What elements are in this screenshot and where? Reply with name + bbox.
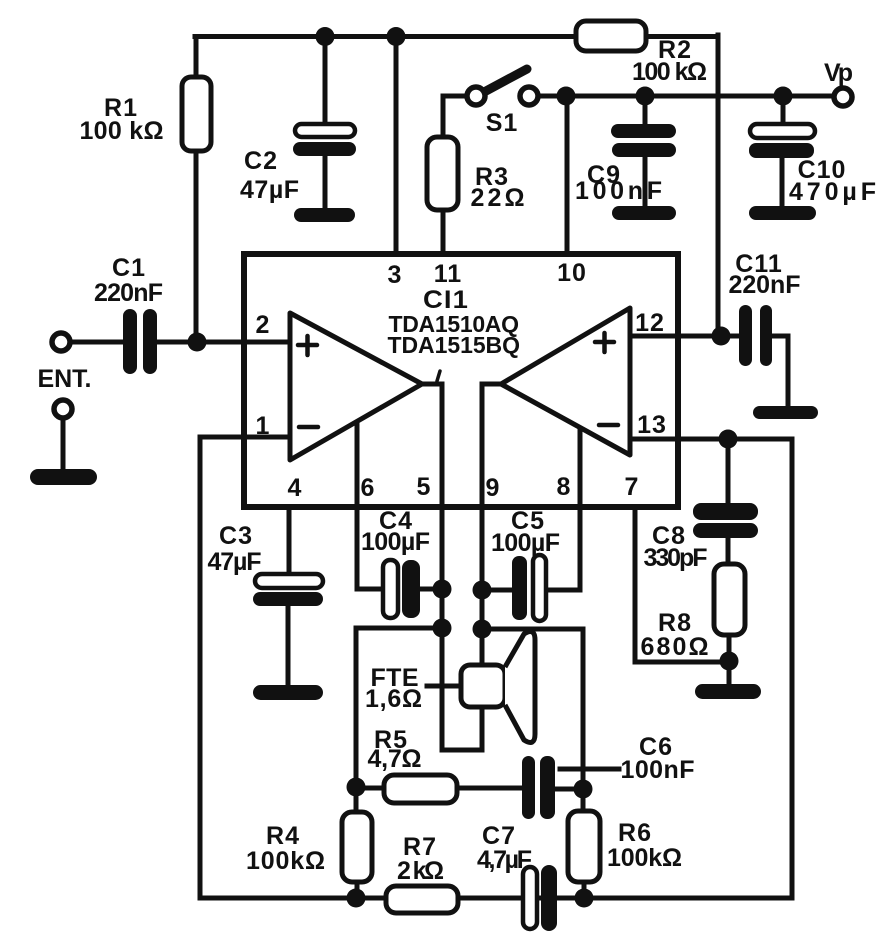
svg-text:100nF: 100nF (621, 756, 696, 784)
svg-text:100µF: 100µF (491, 529, 561, 557)
svg-text:47µF: 47µF (208, 548, 263, 576)
svg-text:220nF: 220nF (94, 279, 164, 307)
svg-text:100nF: 100nF (575, 177, 663, 205)
svg-text:CI1: CI1 (423, 286, 469, 314)
svg-text:C1: C1 (112, 254, 146, 282)
svg-text:1,6Ω: 1,6Ω (365, 685, 423, 713)
svg-text:10: 10 (557, 259, 587, 287)
svg-text:22Ω: 22Ω (471, 184, 526, 212)
svg-text:TDA1515BQ: TDA1515BQ (388, 332, 521, 358)
svg-text:4,7µF: 4,7µF (477, 846, 533, 874)
svg-text:R4: R4 (266, 822, 300, 850)
svg-text:C2: C2 (244, 147, 278, 175)
svg-text:100 kΩ: 100 kΩ (80, 117, 165, 145)
svg-text:330pF: 330pF (644, 544, 709, 572)
svg-text:R6: R6 (618, 819, 652, 847)
svg-text:9: 9 (486, 474, 501, 502)
svg-text:470µF: 470µF (789, 178, 877, 206)
svg-text:C3: C3 (219, 522, 253, 550)
svg-text:ENT.: ENT. (38, 365, 93, 393)
svg-text:3: 3 (388, 261, 403, 289)
svg-text:5: 5 (417, 473, 432, 501)
svg-text:S1: S1 (486, 109, 519, 137)
svg-text:680Ω: 680Ω (641, 633, 710, 661)
svg-text:6: 6 (361, 474, 376, 502)
svg-text:4,7Ω: 4,7Ω (368, 745, 423, 773)
svg-text:7: 7 (625, 473, 640, 501)
svg-text:100µF: 100µF (361, 528, 431, 556)
svg-text:4: 4 (288, 474, 303, 502)
svg-text:100kΩ: 100kΩ (246, 847, 326, 875)
svg-text:11: 11 (434, 260, 462, 288)
svg-text:100 kΩ: 100 kΩ (632, 58, 708, 86)
svg-text:13: 13 (637, 411, 667, 439)
svg-text:2: 2 (256, 311, 271, 339)
svg-text:1: 1 (256, 412, 271, 440)
svg-text:Vp: Vp (824, 59, 854, 87)
svg-text:2 kΩ: 2 kΩ (397, 857, 445, 885)
svg-text:47µF: 47µF (240, 176, 300, 204)
svg-text:8: 8 (557, 473, 572, 501)
svg-text:100kΩ: 100kΩ (607, 844, 683, 872)
svg-text:220nF: 220nF (729, 271, 802, 299)
svg-text:12: 12 (635, 309, 665, 337)
